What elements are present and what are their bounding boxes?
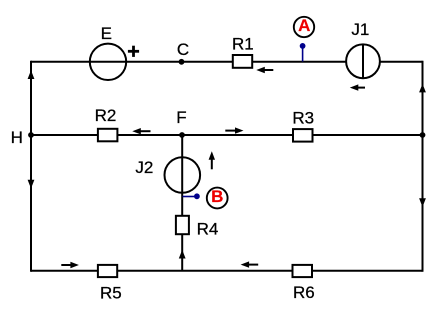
wire top horizontal	[31, 61, 423, 63]
voltage source E	[90, 44, 126, 80]
node F	[179, 132, 185, 138]
svg-text:J2: J2	[135, 158, 153, 177]
node A blue pin	[300, 43, 306, 62]
resistor R2	[98, 129, 118, 142]
node B blue pin	[183, 193, 200, 199]
current arrow bottom-right	[241, 261, 259, 267]
svg-text:B: B	[211, 187, 223, 206]
svg-text:R1: R1	[232, 34, 254, 53]
node H	[28, 132, 34, 138]
wire right vertical	[422, 61, 424, 272]
resistor R3	[293, 129, 313, 142]
svg-text:C: C	[177, 40, 189, 59]
node C	[179, 59, 185, 65]
resistor R5	[98, 265, 117, 277]
polarity plus of E	[128, 46, 139, 57]
svg-text:A: A	[298, 16, 310, 35]
current arrow below R1	[256, 67, 273, 73]
arrow up on right wire	[419, 84, 426, 93]
svg-text:R6: R6	[293, 283, 315, 302]
wire F column vertical	[181, 135, 183, 271]
arrow down on left wire	[28, 180, 35, 189]
resistor R1	[233, 55, 252, 68]
current arrow left of F	[132, 128, 150, 134]
resistor R4	[176, 216, 189, 234]
svg-text:R5: R5	[100, 284, 122, 303]
svg-text:J1: J1	[351, 20, 369, 39]
svg-text:R2: R2	[95, 106, 117, 125]
current arrow bottom-left	[61, 262, 79, 268]
arrow up on R4 wire	[179, 250, 186, 259]
wire bottom horizontal	[31, 270, 423, 272]
current arrow below J1	[350, 84, 365, 90]
node right-middle junction	[420, 132, 426, 138]
svg-text:R3: R3	[292, 108, 314, 127]
wire middle horizontal	[31, 134, 423, 136]
wire left vertical	[30, 61, 32, 272]
current arrow right of F	[225, 127, 243, 133]
svg-text:E: E	[101, 24, 112, 43]
node A label circle	[294, 17, 314, 37]
svg-text:F: F	[176, 108, 186, 127]
arrow up on left wire	[28, 70, 35, 79]
arrow down on right wire	[419, 198, 426, 207]
current source J2	[165, 157, 201, 193]
current arrow beside J2	[209, 151, 215, 169]
current source J1	[346, 44, 380, 78]
svg-text:H: H	[11, 128, 23, 147]
resistor R6	[293, 265, 313, 277]
svg-text:R4: R4	[197, 219, 219, 238]
node B label circle	[207, 188, 228, 209]
